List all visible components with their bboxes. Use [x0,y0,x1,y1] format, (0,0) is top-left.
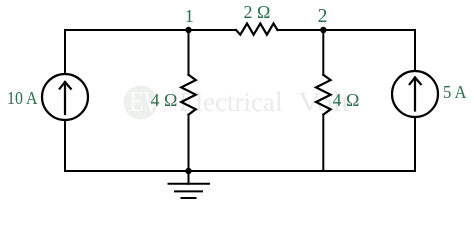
svg-text:1: 1 [185,6,194,26]
svg-text:2 Ω: 2 Ω [244,2,271,22]
svg-text:10 A: 10 A [7,88,38,108]
svg-text:2: 2 [318,6,328,27]
svg-text:5 A: 5 A [443,82,467,102]
svg-text:4 Ω: 4 Ω [333,90,360,110]
svg-text:4 Ω: 4 Ω [151,90,178,110]
svg-text:Electrical: Electrical [179,87,283,117]
